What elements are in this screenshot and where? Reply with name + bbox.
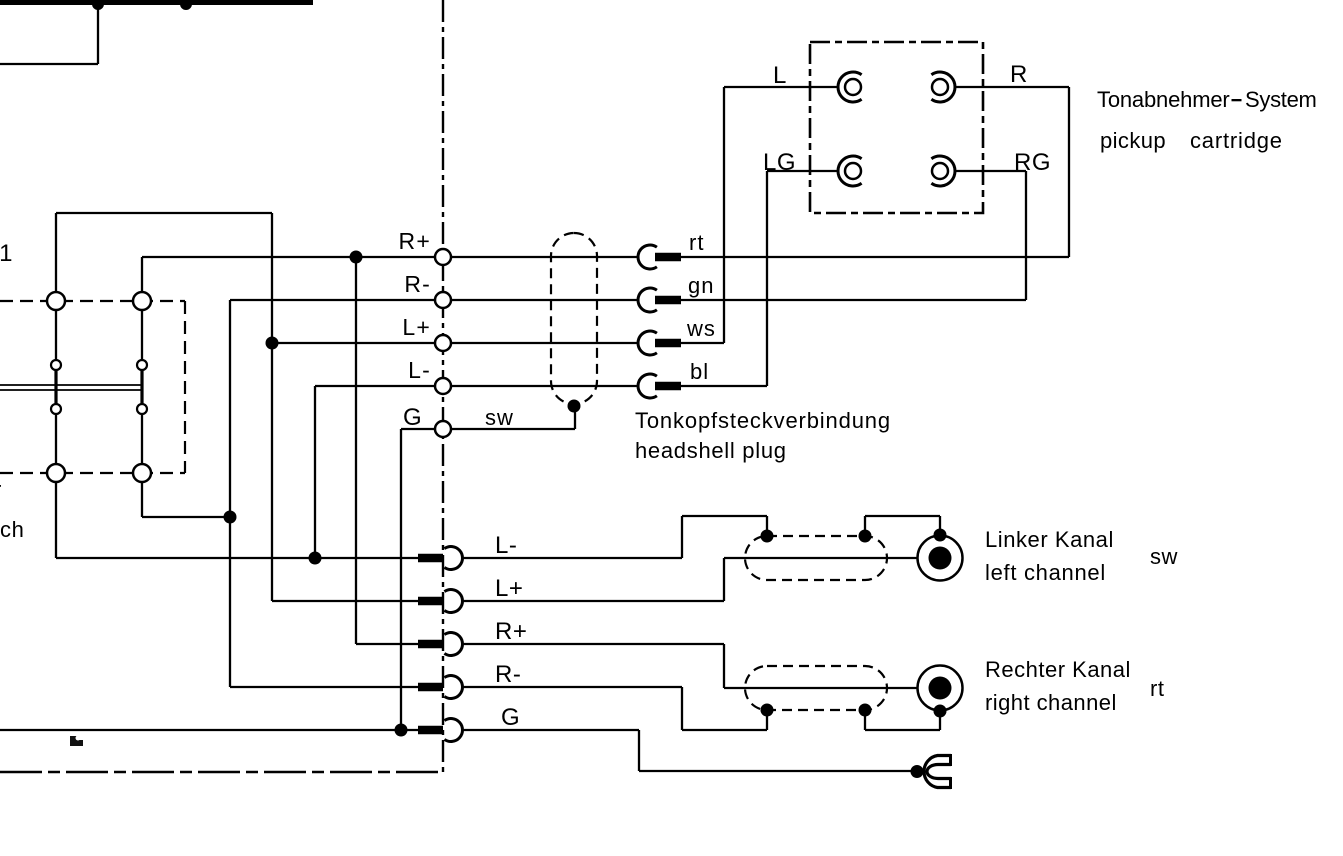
svg-text:headshell plug: headshell plug xyxy=(635,438,787,463)
svg-text:LG: LG xyxy=(763,149,796,176)
svg-text:ws: ws xyxy=(686,316,716,341)
svg-text:R: R xyxy=(1010,61,1028,88)
svg-text:01: 01 xyxy=(0,240,13,267)
svg-text:left channel: left channel xyxy=(985,560,1106,585)
svg-text:G: G xyxy=(501,704,520,731)
svg-text:rt: rt xyxy=(1150,676,1164,701)
svg-text:Tonkopfsteckverbindung: Tonkopfsteckverbindung xyxy=(635,408,891,433)
svg-text:R+: R+ xyxy=(495,618,527,645)
svg-text:right channel: right channel xyxy=(985,690,1117,715)
svg-text:G: G xyxy=(403,404,422,431)
svg-text:Tonabnehmer: Tonabnehmer xyxy=(1097,87,1230,112)
svg-text:L-: L- xyxy=(408,357,431,383)
svg-text:R+: R+ xyxy=(399,228,431,254)
svg-text:R-: R- xyxy=(404,271,431,297)
svg-text:System: System xyxy=(1245,87,1317,112)
svg-text:bl: bl xyxy=(690,359,709,384)
svg-text:L: L xyxy=(773,62,787,89)
svg-text:L-: L- xyxy=(495,532,517,559)
svg-text:L+: L+ xyxy=(402,314,431,340)
svg-text:ch: ch xyxy=(0,517,24,542)
svg-text:Linker Kanal: Linker Kanal xyxy=(985,527,1114,552)
svg-text:sw: sw xyxy=(1150,544,1178,569)
svg-text:cartridge: cartridge xyxy=(1190,128,1283,153)
svg-text:Rechter Kanal: Rechter Kanal xyxy=(985,657,1131,682)
svg-text:pickup: pickup xyxy=(1100,128,1166,153)
svg-text:L+: L+ xyxy=(495,575,523,602)
svg-text:RG: RG xyxy=(1014,149,1051,176)
svg-text:sw: sw xyxy=(485,405,514,430)
svg-text:gn: gn xyxy=(688,273,714,298)
svg-text:R-: R- xyxy=(495,661,521,688)
svg-text:rt: rt xyxy=(689,230,704,255)
svg-text:r: r xyxy=(0,477,2,502)
